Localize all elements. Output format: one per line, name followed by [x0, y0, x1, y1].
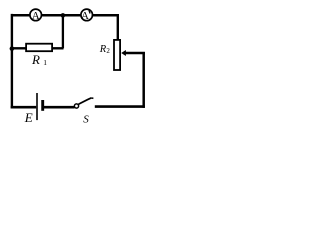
wire: bottom segment from switch to bottom-right corner	[95, 105, 145, 108]
node: junction dot on left wire at R1 lead	[10, 46, 15, 51]
wire: bottom segment from battery short plate to switch pivot	[44, 106, 75, 109]
rheostat R2 wiper arrowhead	[121, 50, 126, 56]
switch S: pivot ring	[74, 104, 78, 108]
svg-text:1: 1	[43, 58, 47, 67]
wire: left side vertical	[11, 14, 13, 109]
svg-text:2: 2	[106, 47, 110, 55]
switch S: lever tip hook	[91, 97, 93, 100]
wire: top, from top-left corner to top-right corner	[12, 14, 119, 17]
wire: bottom left segment (corner to battery long plate)	[11, 106, 37, 109]
wire: vertical feed from top wire down to rheostat R2	[117, 14, 119, 40]
svg-text:A: A	[32, 10, 40, 22]
rheostat R2 body	[114, 40, 120, 70]
wire: right side vertical (wiper return)	[142, 52, 145, 108]
svg-text:S: S	[83, 114, 89, 126]
svg-text:A: A	[81, 10, 89, 22]
svg-text:R: R	[31, 52, 40, 67]
node: junction dot on top wire	[61, 13, 66, 18]
svg-text:E: E	[24, 110, 33, 125]
wire: R1 left lead from left wire	[11, 47, 26, 49]
wire: branch vertical from top-wire junction down to R1	[62, 14, 64, 48]
ammeter A' (U2)	[81, 9, 93, 22]
wire: R1 right lead	[52, 47, 64, 49]
resistor R1 body	[26, 44, 52, 52]
ammeter A (U1)	[30, 9, 42, 22]
battery E: short thick plate (-)	[41, 100, 44, 111]
switch S: lever arm	[78, 98, 91, 105]
battery E: long plate (+)	[36, 93, 38, 120]
wire: rheostat wiper horizontal	[125, 52, 145, 54]
